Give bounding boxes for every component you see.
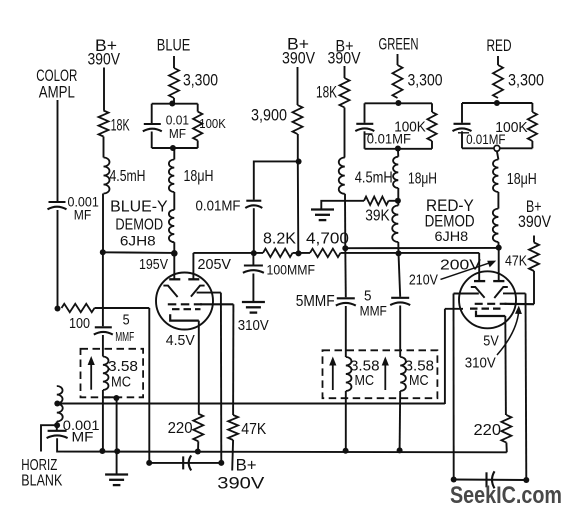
svg-text:GREEN: GREEN <box>379 35 419 54</box>
wire mid 18K to 4.5mH <box>344 108 346 158</box>
wire RED box top rail <box>462 102 532 104</box>
wire BLUE box top rail <box>152 103 198 105</box>
node coupling left (grid line) <box>146 460 152 466</box>
stub HORIZ BLANK <box>41 425 57 451</box>
node rail U left (4.5mH/5MMF) <box>342 245 348 251</box>
node Y junction <box>296 159 302 165</box>
svg-text:390V: 390V <box>518 212 552 231</box>
wire ground rail <box>57 438 507 452</box>
leader 0.01MF label tick (GREEN) <box>365 133 373 135</box>
node left pair coil at ground rail <box>343 448 349 454</box>
svg-text:18K: 18K <box>316 83 337 102</box>
svg-text:4.5V: 4.5V <box>166 333 195 349</box>
svg-text:MC: MC <box>409 372 429 389</box>
svg-text:0.01MF: 0.01MF <box>196 198 241 215</box>
svg-text:B+: B+ <box>236 456 257 475</box>
inductor 18uH (red) upper <box>493 160 498 193</box>
svg-text:MF: MF <box>169 126 186 141</box>
node RED box top junction <box>494 100 500 106</box>
inductor 18uH (blue) upper <box>169 160 174 193</box>
svg-text:BLANK: BLANK <box>21 472 63 489</box>
svg-text:100MMF: 100MMF <box>267 262 316 278</box>
capacitor 0.01MF (GREEN box) <box>356 123 373 125</box>
svg-text:4.5mH: 4.5mH <box>110 168 146 185</box>
wire 4.5mH green down to rail U <box>344 194 346 248</box>
wire BLUE box left edge lower <box>151 132 153 149</box>
capacitor 0.001 MF (horiz blank) <box>48 430 67 432</box>
svg-text:3,300: 3,300 <box>408 71 443 90</box>
anode plate-bar right (blue) <box>188 278 199 280</box>
wire GREEN box right edge lower <box>431 141 433 149</box>
wire rail L to 100MMF <box>252 253 254 264</box>
inductor 3.58 MC (right of pair) <box>400 357 406 391</box>
svg-text:RED: RED <box>487 36 512 55</box>
wire 4.5mH down to plate rail <box>102 194 104 253</box>
inductor 18uH (blue) lower <box>169 210 174 242</box>
svg-text:18μH: 18μH <box>408 171 437 188</box>
node shield at ground rail <box>114 448 120 454</box>
node BLUE box bottom junction <box>170 145 176 151</box>
wire deflector to drop (blue) <box>197 292 221 294</box>
svg-text:18K: 18K <box>111 116 130 135</box>
wire BLUE box left edge upper <box>151 104 153 123</box>
svg-text:6JH8: 6JH8 <box>120 234 156 249</box>
svg-text:8.2K: 8.2K <box>263 231 297 248</box>
svg-text:220: 220 <box>168 420 193 437</box>
inductor horiz-blank coupling upper <box>57 386 63 403</box>
node shield tap (blue box) <box>113 395 119 401</box>
wire 39K ground stub <box>321 201 364 209</box>
wire blue deflector coupling line <box>149 462 221 464</box>
capacitor 5 MMF (right quad) <box>391 297 409 299</box>
inductor horiz-blank coupling lower <box>57 404 63 422</box>
svg-text:390V: 390V <box>328 49 362 68</box>
svg-text:MF: MF <box>72 430 94 445</box>
grid row1 (blue) <box>168 303 202 305</box>
wire shield to ground rail <box>116 398 118 474</box>
node blue quad at ground rail <box>99 448 105 454</box>
wire blue 18uH mid <box>173 192 175 210</box>
node coupling right (deflector) <box>218 460 224 466</box>
svg-text:BLUE: BLUE <box>157 36 191 55</box>
capacitor coupling (blue bottom) <box>182 456 184 469</box>
wire 39K to green column <box>389 200 398 202</box>
pin plate right (red) <box>498 248 500 280</box>
svg-text:5V: 5V <box>483 334 499 350</box>
svg-text:39K: 39K <box>365 208 390 225</box>
svg-text:5MMF: 5MMF <box>296 293 335 310</box>
resistor 18K (mid B+ feed) <box>340 78 350 108</box>
svg-text:47K: 47K <box>241 421 267 438</box>
svg-text:390V: 390V <box>88 50 121 69</box>
capacitor 0.001 MF (color ampl coupling) <box>49 201 66 203</box>
wire GREEN stub <box>397 54 399 65</box>
wire RED box left edge lower <box>461 131 463 148</box>
tuning arrow (blue 3.58 MC) <box>90 361 92 390</box>
svg-text:3,300: 3,300 <box>508 71 544 90</box>
wire GREEN box bottom rail <box>365 148 433 150</box>
wire rail L mid1 <box>293 252 311 254</box>
svg-text:205V: 205V <box>198 257 232 273</box>
resistor 220 (blue cathode) <box>193 414 203 442</box>
wire blue quad cap to coil <box>102 335 104 357</box>
pin cathode lead (red) <box>504 316 507 415</box>
capacitor coupling (red bottom) <box>485 472 487 487</box>
capacitor 5 MMF (blue quad) <box>95 326 112 328</box>
inductor 18uH (red) lower <box>493 209 499 242</box>
wire 5MMF#1 to coil <box>345 306 347 357</box>
svg-text:100: 100 <box>69 316 90 332</box>
wire BLUE box right edge lower <box>197 141 199 149</box>
wire green 18uH mid <box>397 188 399 201</box>
ground (100MMF) <box>242 301 265 303</box>
node coil bottom / horiz blank <box>54 422 60 428</box>
grid row2 (red) <box>470 308 502 310</box>
svg-text:MF: MF <box>74 208 92 223</box>
wire B+ 3900 stub <box>297 67 299 105</box>
wire red 18uH to rail U <box>497 242 499 248</box>
wire GREEN box right edge upper <box>431 103 433 112</box>
wire 47K jog to deflector (red) <box>503 292 526 294</box>
wire COLOR AMPL drop <box>57 100 59 201</box>
wire grid1 out (blue) <box>200 303 233 305</box>
wire green 18uH lower tail <box>397 201 399 206</box>
wire coupling cap to 100 ohm node <box>57 210 59 309</box>
resistor 100K (RED) <box>528 112 537 141</box>
anode plate-bar left (red) <box>474 280 485 282</box>
wire coil to cap <box>56 422 58 431</box>
wire RED box right edge upper <box>531 103 533 112</box>
inductor 4.5mH (red demod) <box>339 158 345 194</box>
svg-text:4.5mH: 4.5mH <box>355 170 393 187</box>
anode plate-bar left (blue) <box>169 278 180 280</box>
tuning arrow (right of pair) <box>384 362 386 391</box>
wire red 18uH mid <box>497 192 499 209</box>
node right pair coil at ground rail <box>397 447 403 453</box>
capacitor 100MMF <box>244 264 263 266</box>
svg-text:0.01MF: 0.01MF <box>466 132 505 147</box>
leader 0.01MF label tick (RED) <box>458 132 469 134</box>
node 195V plate rail left <box>100 249 106 255</box>
grid row1 (red) <box>475 303 507 305</box>
pin plate left (blue, 195V) <box>173 253 175 278</box>
node coil tap <box>54 401 60 407</box>
svg-text:220: 220 <box>474 422 502 439</box>
inductor 18uH (green) lower <box>392 206 398 243</box>
shield box 3.58 MC pair (dashed) <box>323 350 438 398</box>
svg-text:18μH: 18μH <box>507 171 537 188</box>
wire right pair coil to ground rail <box>399 391 402 450</box>
wire rail L mid2 <box>341 252 480 254</box>
wire red box to 18uH <box>497 151 499 159</box>
deflector right (red) <box>494 287 508 298</box>
resistor 47K (blue screen) <box>228 415 238 440</box>
resistor 220 (red cathode) <box>501 415 511 443</box>
svg-text:390V: 390V <box>282 49 316 68</box>
wire 0.01MF to rail L <box>253 208 255 253</box>
tuning arrow (left of pair) <box>332 362 334 391</box>
svg-text:210V: 210V <box>409 273 438 289</box>
svg-text:3,300: 3,300 <box>183 71 218 90</box>
tube envelope V2 (red demod 6JH8) <box>459 271 516 328</box>
svg-text:AMPL: AMPL <box>39 82 75 101</box>
resistor 100K (GREEN) <box>427 112 436 141</box>
node RED box bottom connector <box>494 145 500 151</box>
pin plate left (red, 200V) <box>478 253 480 280</box>
svg-text:0.01MF: 0.01MF <box>367 132 411 147</box>
svg-text:DEMOD: DEMOD <box>115 216 163 233</box>
wire shield tap (blue box) <box>103 396 117 398</box>
shield box 3.58 MC (blue, dashed) <box>81 349 144 398</box>
wire GREEN box left edge upper <box>364 103 366 123</box>
svg-text:SeekIC.com: SeekIC.com <box>450 482 562 509</box>
resistor 4,700 <box>310 249 341 257</box>
resistor 18K (left B+ feed) <box>99 111 109 137</box>
leader arrow 210V <box>441 263 491 280</box>
resistor 3,300 (GREEN) <box>393 65 403 98</box>
leader arrow 310V <box>497 311 519 356</box>
wire blue quad coil to ground rail <box>102 390 104 451</box>
svg-text:6JH8: 6JH8 <box>435 229 469 244</box>
wire blue box to 18uH <box>173 148 174 160</box>
wire 47K to B+ stub <box>231 440 234 471</box>
svg-text:BLUE-Y: BLUE-Y <box>110 199 168 216</box>
resistor 100K (BLUE) <box>193 112 202 141</box>
ground (main bottom) <box>105 473 128 475</box>
tube envelope V1 (blue demod 6JH8) <box>156 273 213 330</box>
node GREEN box bottom junction <box>395 146 401 152</box>
wire quad rail U <box>345 247 498 249</box>
wire BLUE stub <box>173 56 175 68</box>
pin cathode lead (blue) <box>198 321 200 414</box>
node red coupling left <box>451 477 457 483</box>
resistor 3,300 (BLUE) <box>169 68 179 98</box>
node green 18uH at rail L <box>396 250 402 256</box>
wire 18K to 4.5mH <box>103 137 105 158</box>
svg-text:310V: 310V <box>238 318 269 334</box>
wire left deflector feed (red) <box>454 293 479 295</box>
svg-text:MC: MC <box>111 374 131 391</box>
wire GREEN box top rail <box>365 102 433 104</box>
cathode (red) <box>476 311 505 316</box>
ground (39K) <box>311 208 334 210</box>
capacitor 0.01MF (RED box) <box>454 123 471 125</box>
node red coupling right <box>523 477 529 483</box>
wire left pair coil to ground rail <box>345 391 347 451</box>
resistor 3,900 <box>293 105 303 134</box>
node 39K junction <box>395 198 401 204</box>
wire grid2 feed (red) <box>445 308 463 310</box>
svg-text:390V: 390V <box>217 474 265 493</box>
wire 100MMF to ground <box>252 274 254 302</box>
wire 5MMF#2 to coil <box>399 306 401 358</box>
resistor 47K (red deflector) <box>529 243 539 272</box>
wire RED box right edge lower <box>531 141 533 148</box>
wire RED box bottom rail <box>462 147 532 149</box>
wire RED stub <box>497 56 499 65</box>
pin plate right (blue, 205V) <box>192 253 194 279</box>
deflector left (red) <box>471 287 485 298</box>
svg-text:3.58: 3.58 <box>108 358 138 375</box>
svg-text:MC: MC <box>355 372 375 389</box>
wire red 220 to ground rail <box>505 443 507 453</box>
wire 3300-BLUE to box <box>173 98 175 104</box>
wire RED box left edge upper <box>461 103 463 123</box>
node 0.01MF at rail L <box>251 250 257 256</box>
node color-ampl 100ohm junction <box>55 306 61 312</box>
wire plate rail 195V segment <box>103 251 175 254</box>
grid row2 (blue) <box>172 308 201 310</box>
node 3900 at rail L <box>296 250 302 256</box>
inductor 4.5mH (blue demod) <box>104 158 110 194</box>
wire red grid2 drop <box>444 309 446 404</box>
wire blue deflector drop <box>220 293 222 463</box>
resistor 100 (grid) <box>62 304 95 312</box>
node GREEN box top junction <box>395 100 401 106</box>
svg-text:310V: 310V <box>465 356 496 372</box>
wire red deflector/47K drop <box>525 293 528 480</box>
wire 47K down <box>533 271 535 304</box>
wire 100ohm to grid-area corner <box>95 307 150 309</box>
svg-text:195V: 195V <box>139 257 168 273</box>
wire grid-area drop left of tube <box>148 308 150 463</box>
wire node Y to 0.01MF column <box>254 161 299 199</box>
wire quad column mid (5MMF#1) <box>344 248 347 297</box>
capacitor 0.01 MF (BLUE box) <box>144 123 161 125</box>
capacitor 0.01MF (coupling to 100MMF) <box>246 200 261 202</box>
wire blue quad column <box>102 252 104 326</box>
cathode (blue) <box>170 314 199 320</box>
wire 3900 to node Y to rail L <box>297 134 300 253</box>
wire red deflector coupling line <box>454 479 527 482</box>
wire green 18uH to rail L <box>397 242 399 253</box>
wire BLUE box bottom rail <box>152 147 198 149</box>
inductor 3.58 MC (blue quad) <box>103 357 109 391</box>
anode plate-bar right (red) <box>493 280 504 282</box>
resistor 8.2K <box>263 249 292 257</box>
wire BLUE box right edge upper <box>197 104 199 112</box>
wire green box to 18uH <box>397 149 399 157</box>
wire B+ left feed stub <box>103 68 105 111</box>
deflector right (blue) <box>191 286 205 297</box>
inductor 18uH (green) upper <box>393 157 398 188</box>
node BLUE box top junction <box>169 101 175 107</box>
wire blue grid1 drop (to 47K) <box>232 304 234 415</box>
wire grid1 out (red) <box>505 303 535 306</box>
svg-text:100K: 100K <box>199 116 226 131</box>
resistor 3,300 (RED) <box>493 65 503 98</box>
node blue left plate junction <box>171 250 178 257</box>
wire 205V rail to 8.2K <box>193 252 263 254</box>
wire B+ mid stub <box>344 66 346 78</box>
wire green quad column (5MMF#2) <box>399 253 401 296</box>
svg-text:5: 5 <box>123 313 130 329</box>
svg-text:MMF: MMF <box>360 302 387 318</box>
wire red deflector-left drop <box>453 294 455 480</box>
svg-text:18μH: 18μH <box>184 168 214 185</box>
wire 47K stub <box>533 236 535 243</box>
svg-text:3,900: 3,900 <box>251 106 287 125</box>
svg-text:200V: 200V <box>440 257 481 274</box>
resistor 39K <box>364 197 389 205</box>
svg-text:4,700: 4,700 <box>306 231 349 248</box>
inductor 3.58 MC (left of pair) <box>346 357 352 391</box>
wire blue 18uH to plate <box>173 242 175 253</box>
wire 220 to ground rail <box>197 441 199 451</box>
capacitor 5MMF (left quad) <box>337 297 355 299</box>
wire GREEN box left edge lower <box>364 131 366 149</box>
wire quad return rail <box>57 403 445 405</box>
node rail U right (red 18uH) <box>496 245 502 251</box>
svg-text:DEMOD: DEMOD <box>425 213 475 231</box>
svg-text:MMF: MMF <box>115 330 134 344</box>
svg-text:47K: 47K <box>505 253 527 270</box>
deflector left (blue) <box>163 286 177 297</box>
node cathode/220 at ground rail <box>195 449 201 455</box>
